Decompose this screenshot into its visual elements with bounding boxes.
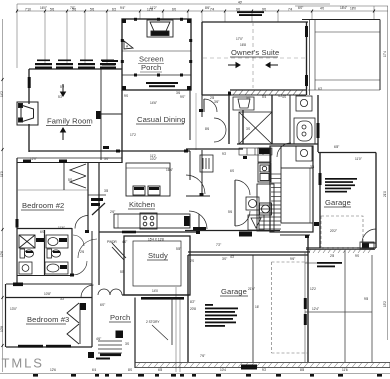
svg-text:4'6": 4'6"	[96, 337, 101, 341]
dining east dim	[195, 93, 197, 150]
svg-text:12'6: 12'6	[50, 368, 56, 372]
bedroom3 walls	[6, 285, 92, 347]
svg-text:7'6": 7'6"	[200, 354, 205, 358]
screen porch fireplace	[147, 20, 173, 37]
garage bottom car dashed	[272, 262, 309, 353]
svg-text:5'6: 5'6	[90, 8, 94, 12]
bedroom2 closet	[64, 163, 86, 190]
bedroom3 window	[18, 345, 43, 348]
bath1 shower	[19, 235, 35, 248]
kitchen island	[114, 213, 190, 229]
svg-text:2 STORY: 2 STORY	[146, 320, 160, 324]
right covered porch	[302, 20, 380, 91]
svg-text:TMLS: TMLS	[2, 356, 44, 371]
svg-text:5'6: 5'6	[228, 210, 232, 214]
svg-text:18'0: 18'0	[350, 7, 356, 11]
svg-text:3'4: 3'4	[310, 165, 314, 169]
owner sinks	[296, 96, 312, 161]
svg-text:17'2: 17'2	[130, 133, 136, 137]
garage right note	[325, 178, 357, 193]
bedroom3 door arc	[81, 285, 94, 298]
family west window	[28, 77, 31, 88]
svg-text:Porch: Porch	[141, 63, 161, 72]
bottom tick marks	[33, 374, 382, 377]
stair door arc	[277, 143, 291, 157]
ceiling arrows family room	[61, 84, 66, 140]
kitchen window	[122, 231, 136, 234]
window labels	[37, 60, 114, 62]
svg-text:4'2: 4'2	[230, 255, 234, 259]
svg-text:11'6: 11'6	[342, 368, 348, 372]
hall walls center	[190, 151, 199, 232]
step label	[100, 354, 121, 357]
svg-text:10'8": 10'8"	[44, 292, 51, 296]
svg-text:17'4: 17'4	[383, 51, 387, 57]
svg-text:5'2: 5'2	[60, 85, 64, 89]
svg-text:6'2: 6'2	[112, 8, 116, 12]
svg-text:6'0": 6'0"	[298, 6, 303, 10]
svg-text:5'6: 5'6	[72, 8, 76, 12]
bath2 tub	[45, 262, 68, 274]
owner's suite centerline	[252, 22, 254, 88]
svg-text:Porch: Porch	[110, 313, 130, 322]
svg-text:20'8: 20'8	[190, 307, 196, 311]
garage right car dashed	[321, 216, 363, 248]
gallery wall	[100, 69, 102, 160]
2-story leader	[152, 325, 168, 340]
garage right walls	[306, 153, 376, 249]
stair hall window	[319, 173, 322, 185]
svg-text:9'2: 9'2	[262, 368, 266, 372]
svg-text:3'6": 3'6"	[214, 100, 219, 104]
fireplace family room	[17, 102, 38, 125]
owner's suite walls	[202, 19, 310, 95]
svg-text:Bedroom #3: Bedroom #3	[27, 315, 69, 324]
misc black bits	[88, 352, 94, 358]
svg-text:6'0: 6'0	[230, 169, 234, 173]
hall closet	[200, 155, 213, 172]
study walls	[124, 236, 190, 295]
svg-text:6'4: 6'4	[92, 368, 96, 372]
svg-text:6'8": 6'8"	[334, 145, 339, 149]
svg-text:5'4: 5'4	[262, 95, 266, 99]
garage bottom walls	[188, 237, 308, 362]
bedroom3 closet	[67, 303, 80, 344]
svg-text:16': 16'	[255, 305, 260, 309]
svg-text:11'0: 11'0	[0, 171, 4, 177]
svg-text:9'0: 9'0	[355, 254, 359, 258]
svg-text:9'6": 9'6"	[290, 257, 295, 261]
laundry walls	[186, 150, 210, 196]
svg-text:16'8: 16'8	[240, 43, 246, 47]
svg-text:10'8: 10'8	[0, 326, 4, 332]
svg-text:14'0: 14'0	[152, 289, 158, 293]
mud bench	[239, 232, 252, 237]
bath bottom walls	[17, 275, 72, 277]
svg-text:8'2": 8'2"	[190, 300, 195, 304]
svg-text:14'2: 14'2	[0, 91, 4, 97]
bedroom2 walls	[6, 158, 123, 347]
svg-text:12'0": 12'0"	[30, 157, 37, 161]
svg-text:5'2": 5'2"	[58, 95, 63, 99]
bath2 toilet	[47, 249, 61, 258]
screen porch columns	[122, 19, 191, 90]
svg-text:13'0": 13'0"	[10, 307, 17, 311]
garage right door arc	[362, 229, 376, 243]
svg-text:6'8: 6'8	[158, 368, 162, 372]
svg-text:12'8: 12'8	[147, 8, 153, 12]
svg-text:8'8: 8'8	[300, 368, 304, 372]
owner tub	[294, 118, 315, 144]
svg-text:16'0": 16'0"	[40, 6, 47, 10]
svg-text:7'4: 7'4	[288, 8, 292, 12]
svg-text:3'0": 3'0"	[222, 257, 227, 261]
svg-text:15'2: 15'2	[383, 301, 387, 307]
svg-text:2'6: 2'6	[80, 250, 84, 254]
bath divider wall	[44, 230, 46, 275]
svg-text:PWDR: PWDR	[107, 240, 117, 244]
dim text bars left of porch	[102, 60, 118, 62]
svg-text:9'4": 9'4"	[120, 6, 125, 10]
svg-text:21'6": 21'6"	[248, 287, 255, 291]
svg-text:7'4: 7'4	[210, 8, 214, 12]
casual dining walls	[100, 90, 190, 163]
hall double doors	[235, 180, 250, 226]
owner's suite arrows	[228, 63, 278, 68]
kitchen back cabinets	[126, 163, 170, 196]
svg-text:9'8: 9'8	[364, 297, 368, 301]
garage note text	[205, 304, 238, 327]
svg-text:Casual Dining: Casual Dining	[137, 115, 186, 124]
bath1 toilet	[20, 249, 34, 258]
bedroom2 wic	[88, 195, 106, 215]
svg-text:5'8": 5'8"	[176, 247, 181, 251]
svg-text:5'8: 5'8	[120, 270, 124, 274]
mud south wall	[185, 231, 310, 253]
island right end	[184, 216, 190, 226]
bottom boundary wall	[135, 363, 390, 368]
svg-text:12'2: 12'2	[310, 287, 316, 291]
svg-text:Garage: Garage	[325, 198, 351, 207]
kitchen south wall	[99, 231, 199, 233]
court note	[317, 262, 342, 264]
bath hall top wall	[186, 95, 318, 152]
svg-text:4'0": 4'0"	[122, 240, 127, 244]
porch walls	[135, 298, 172, 369]
svg-text:18'4": 18'4"	[340, 6, 347, 10]
svg-text:3'0: 3'0	[246, 127, 250, 131]
svg-text:4'0: 4'0	[282, 95, 286, 99]
svg-text:9'0: 9'0	[262, 8, 266, 12]
bath2 vanity	[46, 235, 68, 248]
washer	[246, 197, 259, 210]
front porch arch	[98, 289, 190, 295]
kitchen appliance marks	[134, 187, 144, 190]
svg-text:20'2": 20'2"	[330, 229, 337, 233]
owner's suite windows	[305, 26, 308, 86]
svg-text:11'6": 11'6"	[58, 226, 65, 230]
screen porch walls	[122, 19, 191, 90]
svg-text:3'0": 3'0"	[104, 157, 109, 161]
wc double arcs	[214, 118, 226, 142]
svg-text:7'10: 7'10	[25, 8, 31, 12]
svg-text:12'4": 12'4"	[312, 307, 319, 311]
garage right south wall band	[306, 249, 375, 251]
svg-text:10'4: 10'4	[220, 368, 226, 372]
stairs	[259, 146, 313, 232]
svg-text:17'0": 17'0"	[236, 37, 243, 41]
shower with X	[239, 112, 272, 144]
motor court lines	[305, 250, 372, 362]
svg-text:3'0: 3'0	[125, 342, 129, 346]
foyer door arc	[189, 211, 207, 229]
laundry sink	[248, 215, 264, 230]
fridge	[259, 148, 270, 154]
screen porch bottom note	[146, 82, 178, 84]
svg-text:Garage: Garage	[221, 287, 247, 296]
pantry shelves mid	[239, 148, 272, 155]
svg-text:5'6: 5'6	[50, 8, 54, 12]
family room walls	[17, 69, 190, 163]
svg-text:21'0: 21'0	[383, 191, 387, 197]
svg-text:16'4": 16'4"	[166, 168, 173, 172]
pantry angled	[112, 243, 126, 260]
svg-text:3'8: 3'8	[104, 189, 108, 193]
family room windows	[35, 63, 116, 69]
svg-text:6'0: 6'0	[172, 8, 176, 12]
svg-text:5'0: 5'0	[68, 178, 72, 182]
svg-text:9'0: 9'0	[124, 94, 128, 98]
svg-text:2'6": 2'6"	[110, 210, 115, 214]
owner's suite label block	[237, 11, 264, 13]
svg-text:Bedroom #2: Bedroom #2	[22, 201, 64, 210]
bath hall arcs	[73, 235, 84, 246]
svg-text:14'6": 14'6"	[150, 101, 157, 105]
door jamb ticks	[70, 92, 309, 277]
mud cabinet	[257, 184, 274, 231]
svg-text:15'4 X 13'8: 15'4 X 13'8	[148, 238, 164, 242]
svg-text:9'0": 9'0"	[180, 95, 185, 99]
laundry door arc	[186, 175, 205, 194]
svg-text:6'0": 6'0"	[100, 303, 105, 307]
porch steps	[98, 341, 122, 353]
svg-text:11'0": 11'0"	[355, 157, 362, 161]
svg-text:12'6: 12'6	[0, 251, 4, 257]
svg-text:Family Room: Family Room	[47, 117, 93, 126]
court wall windows	[304, 298, 307, 309]
porch column	[116, 331, 124, 339]
svg-text:5'0": 5'0"	[246, 96, 251, 100]
svg-text:Study: Study	[148, 251, 168, 260]
svg-text:40': 40'	[238, 1, 243, 5]
bath window	[317, 123, 320, 138]
screen posts	[121, 18, 192, 77]
svg-text:2'8: 2'8	[210, 96, 214, 100]
svg-text:3'6: 3'6	[176, 91, 180, 95]
svg-text:8'6: 8'6	[205, 127, 209, 131]
svg-text:6'2: 6'2	[318, 87, 322, 91]
svg-text:Kitchen: Kitchen	[129, 200, 155, 209]
bath1 sink low	[19, 262, 32, 274]
svg-text:2'8: 2'8	[330, 254, 334, 258]
court door landing	[360, 242, 374, 249]
svg-text:Owner's Suite: Owner's Suite	[231, 48, 279, 57]
svg-text:3'2: 3'2	[60, 297, 64, 301]
svg-text:6'0: 6'0	[40, 230, 44, 234]
vanity top	[233, 97, 254, 110]
svg-text:7'2": 7'2"	[216, 243, 221, 247]
hall door arc	[204, 99, 217, 112]
svg-text:8'0: 8'0	[128, 368, 132, 372]
svg-text:9'2: 9'2	[222, 152, 226, 156]
svg-text:9'0: 9'0	[236, 8, 240, 12]
svg-text:2'0: 2'0	[190, 259, 194, 263]
porch window band on study wall	[141, 297, 184, 300]
attic access marker	[124, 41, 133, 49]
oven cabinet	[258, 163, 271, 182]
svg-text:11'2: 11'2	[150, 154, 156, 158]
bath labels bits	[26, 251, 60, 253]
bedroom2 door arc	[75, 216, 88, 229]
svg-text:4'0: 4'0	[320, 7, 324, 11]
bedroom2 window	[16, 219, 19, 228]
garage door marker	[241, 365, 257, 370]
